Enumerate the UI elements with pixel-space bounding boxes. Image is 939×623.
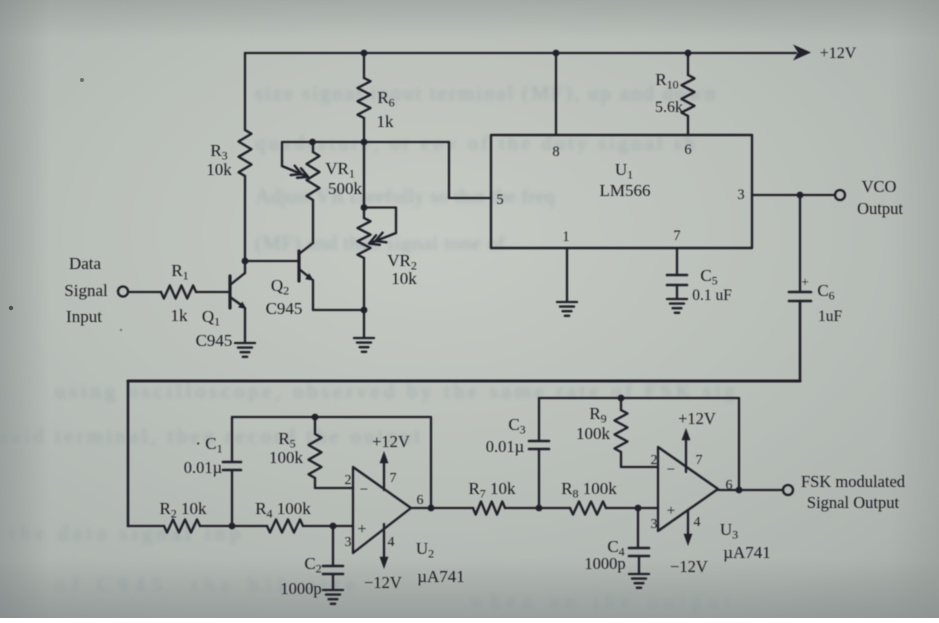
- label +12V supply: [820, 45, 857, 62]
- label C6: [817, 281, 834, 303]
- svg-text:10k: 10k: [391, 269, 417, 288]
- label C5: [700, 266, 717, 288]
- power arrow U3 +12V: [682, 428, 691, 472]
- node junction on rail at R10: [685, 50, 692, 57]
- svg-text:−: −: [360, 482, 368, 498]
- resistor R1: [161, 286, 196, 299]
- pin 6 label: [684, 142, 691, 158]
- wire R10 top: [687, 53, 689, 75]
- op-amp U3 triangle: [658, 447, 718, 531]
- label U3 minus: [667, 462, 675, 478]
- svg-text:7: 7: [673, 228, 680, 244]
- pin 4 label U2: [388, 535, 395, 550]
- node R5 top: [312, 414, 319, 421]
- svg-text:LM566: LM566: [600, 181, 651, 200]
- svg-text:R7​ 10k: R7​ 10k: [468, 479, 516, 501]
- label U3 -12V: [670, 557, 708, 576]
- pin 2 label U2: [345, 473, 352, 488]
- svg-text:Output: Output: [857, 199, 903, 218]
- capacitor C1: [223, 462, 241, 470]
- wire VR1 bottom to Q2 collector: [312, 200, 314, 243]
- resistor R4: [267, 520, 303, 533]
- svg-text:1: 1: [562, 229, 569, 245]
- pin 7 label U3: [696, 453, 703, 468]
- transistor Q1: [230, 273, 247, 309]
- wire C2 bottom: [332, 574, 334, 590]
- svg-text:7: 7: [696, 453, 703, 468]
- wire U3 output: [718, 489, 783, 491]
- wire pin 8 to rail: [555, 53, 557, 135]
- label U3 +12V: [678, 409, 716, 428]
- paper speck: [120, 329, 123, 332]
- ground C4: [629, 574, 649, 588]
- svg-text:7: 7: [390, 471, 397, 486]
- ground U1 pin1: [557, 302, 577, 316]
- wire pin 1 down: [566, 248, 568, 301]
- wiper arrow VR1: [282, 142, 312, 178]
- IC U1 LM566 body: [491, 135, 752, 248]
- node Q1 collector / R3 / Q2 base: [242, 258, 249, 265]
- label R1 value: [171, 306, 189, 325]
- node U2 output junction: [428, 505, 435, 512]
- svg-text:1uF: 1uF: [818, 308, 843, 325]
- op-amp U2 triangle: [353, 467, 411, 553]
- wire R4 to pin3: [303, 525, 353, 527]
- terminal FSK output: [783, 485, 793, 495]
- svg-text:−12V: −12V: [670, 557, 708, 576]
- label U3 part uA741: [723, 543, 771, 562]
- node junction on rail at R6: [361, 50, 368, 57]
- wire node to pin 5 of U1: [364, 142, 491, 198]
- node C1/R2/R4 junction: [229, 523, 236, 530]
- svg-text:−: −: [667, 462, 675, 478]
- label C4: [607, 537, 624, 559]
- node C4 tap: [635, 505, 642, 512]
- svg-text:+12V: +12V: [678, 409, 716, 428]
- svg-text:3: 3: [651, 517, 658, 532]
- label U1 part LM566: [600, 181, 651, 200]
- wiper arrow VR2: [364, 208, 396, 245]
- label U1: [615, 160, 633, 182]
- label R10: [655, 70, 678, 92]
- svg-text:2: 2: [651, 453, 658, 468]
- label VR2: [387, 251, 417, 273]
- pin 6 label U3: [726, 478, 733, 493]
- label U2 minus: [360, 482, 368, 498]
- svg-text:µA741: µA741: [723, 543, 771, 562]
- wire C1 top: [231, 417, 233, 462]
- wire U2 feedback: [232, 417, 431, 508]
- node C2 tap: [330, 523, 337, 530]
- ground C5: [667, 299, 687, 313]
- label Q2: [271, 276, 289, 298]
- label C6 value: [818, 308, 843, 325]
- svg-text:10k: 10k: [206, 160, 232, 179]
- label U2: [416, 539, 434, 561]
- capacitor C6: [789, 292, 811, 301]
- label R7 10k: [468, 479, 516, 501]
- svg-text:Signal Output: Signal Output: [807, 493, 900, 512]
- wire VR2 bottom: [363, 258, 365, 310]
- svg-text:+12V: +12V: [372, 432, 410, 451]
- label U3 plus: [667, 503, 675, 519]
- wire C3 top: [538, 398, 540, 441]
- svg-text:0.01µ: 0.01µ: [184, 458, 222, 477]
- wire C1 bottom: [231, 470, 233, 526]
- label C1: [195, 434, 222, 456]
- node VR1 top: [309, 139, 316, 146]
- svg-text:100k: 100k: [269, 448, 304, 467]
- wire VR1 top branch: [313, 142, 364, 152]
- wire R2 to node: [200, 525, 267, 527]
- pin 1 label: [562, 229, 569, 245]
- svg-text:R2​ 10k: R2​ 10k: [159, 499, 207, 521]
- resistor R8: [570, 502, 606, 515]
- ground C2: [323, 590, 343, 604]
- wire R5 top: [314, 417, 316, 434]
- svg-text:FSK modulated: FSK modulated: [801, 472, 906, 491]
- label R3: [210, 141, 227, 163]
- label R5: [278, 429, 295, 451]
- svg-text:5: 5: [496, 192, 503, 208]
- label R6: [377, 88, 394, 110]
- svg-text:5.6k: 5.6k: [655, 99, 683, 116]
- svg-text:Adjust VR carefully so tha: Adjust VR carefully so that the freq: [255, 184, 556, 208]
- pin 4 label U3: [694, 515, 701, 530]
- wire Q1 node to Q2 base: [245, 260, 298, 262]
- label VR1: [325, 159, 355, 181]
- wire input terminal: [118, 287, 161, 297]
- svg-text:Data: Data: [69, 254, 102, 273]
- svg-text:1000p: 1000p: [584, 554, 625, 573]
- label VR2 value: [391, 269, 417, 288]
- label U2 -12V: [364, 573, 402, 592]
- svg-text:3: 3: [737, 187, 744, 203]
- resistor R10: [682, 75, 695, 116]
- label R1: [171, 261, 188, 283]
- node C3 junction: [536, 505, 543, 512]
- wire C6 top: [799, 195, 801, 292]
- pin 8 label: [552, 144, 559, 160]
- node VR2 top: [361, 204, 368, 211]
- pin 7 label U2: [390, 471, 397, 486]
- wire U2 output line: [411, 507, 473, 509]
- bleed-through ghost text: [0, 81, 735, 613]
- wire C2 top: [332, 526, 334, 566]
- label C2: [304, 554, 321, 576]
- label C2 value: [280, 579, 321, 598]
- svg-text:VCO: VCO: [862, 177, 897, 196]
- capacitor C4: [629, 548, 649, 556]
- label Q1: [202, 307, 220, 329]
- paper speck: [80, 78, 84, 82]
- svg-text:R4​ 100k: R4​ 100k: [255, 499, 311, 521]
- svg-text:+: +: [801, 274, 808, 289]
- wire R6 top: [363, 53, 365, 78]
- svg-text:C945: C945: [196, 331, 233, 350]
- wire R1 to Q1 base: [196, 291, 229, 293]
- label U3: [720, 520, 738, 542]
- power arrow U2 +12V: [380, 451, 389, 490]
- svg-text:+: +: [667, 503, 675, 519]
- svg-text:8: 8: [552, 144, 559, 160]
- label R3 value: [206, 160, 232, 179]
- label VCO: [862, 177, 897, 196]
- node U3 output junction: [736, 487, 743, 494]
- wire R3 top: [244, 53, 246, 130]
- svg-text:4: 4: [388, 535, 395, 550]
- wire R3 bottom to Q1 collector node: [244, 176, 246, 261]
- paper speck: [9, 306, 13, 310]
- wire VR2 top stub: [363, 207, 365, 218]
- node C6 tap: [797, 192, 804, 199]
- label R5 value: [269, 448, 304, 467]
- wire C5 to ground: [676, 285, 678, 299]
- pin 7 label: [673, 228, 680, 244]
- label C6 plus: [801, 274, 808, 289]
- svg-text:−12V: −12V: [364, 573, 402, 592]
- svg-text:6: 6: [684, 142, 691, 158]
- svg-text:+12V: +12V: [820, 45, 857, 62]
- node R6/VR1/pin5 junction: [361, 139, 368, 146]
- svg-text:1000p: 1000p: [280, 579, 321, 598]
- label Q2 type C945: [266, 299, 303, 318]
- label FSK modulated: [801, 472, 906, 491]
- svg-text:3: 3: [345, 535, 352, 550]
- svg-text:6: 6: [417, 493, 424, 508]
- wire C3 bottom: [538, 449, 540, 508]
- svg-text:100k: 100k: [576, 424, 611, 443]
- capacitor C3: [529, 441, 549, 449]
- wire pin 7 down: [676, 248, 678, 275]
- wire ground stem: [363, 310, 365, 337]
- pin 5 label: [496, 192, 503, 208]
- label C1 value: [184, 458, 222, 477]
- svg-text:500k: 500k: [328, 179, 363, 198]
- label Q1 type C945: [196, 331, 233, 350]
- label R9 value: [576, 424, 611, 443]
- pin 2 label U3: [651, 453, 658, 468]
- wire C4 top: [637, 508, 639, 548]
- svg-text:R8​ 100k: R8​ 100k: [561, 479, 617, 501]
- wire +12V supply rail: [245, 45, 811, 61]
- wire R6 node down to VR2: [363, 142, 365, 207]
- label R8 100k: [561, 479, 617, 501]
- label Data Signal Input: [64, 254, 108, 326]
- wire U3 feedback: [539, 398, 739, 490]
- svg-text:C945: C945: [266, 299, 303, 318]
- node R9 top: [618, 395, 625, 402]
- capacitor C2: [323, 566, 343, 574]
- transistor Q2: [299, 243, 314, 281]
- label R2 10k: [159, 499, 207, 521]
- label U2 +12V: [372, 432, 410, 451]
- terminal VCO output: [835, 190, 845, 200]
- node Q2 emitter / VR2 ground junction: [361, 307, 368, 314]
- pin 3 label: [737, 187, 744, 203]
- resistor R7: [473, 502, 505, 515]
- svg-text:0.01µ: 0.01µ: [486, 437, 524, 456]
- wire R10 bottom to pin6: [687, 116, 689, 135]
- wire R5 to pin2: [315, 478, 353, 488]
- label R4 100k: [255, 499, 311, 521]
- potentiometer VR1: [307, 152, 320, 200]
- wire Q1 collector up: [244, 261, 246, 273]
- capacitor C5: [667, 275, 687, 285]
- node junction on rail at pin8: [553, 50, 560, 57]
- svg-text:Input: Input: [66, 307, 102, 326]
- label R6 value: [377, 112, 395, 131]
- wire R9 to pin2 U3: [621, 452, 658, 467]
- wire R7 to C3 node: [505, 507, 570, 509]
- label C4 value: [584, 554, 625, 573]
- ground Q2/VR2: [354, 338, 374, 352]
- potentiometer VR2: [358, 218, 371, 258]
- resistor R2: [164, 520, 200, 533]
- svg-text:2: 2: [345, 473, 352, 488]
- svg-text:1k: 1k: [377, 112, 395, 131]
- wire C4 bottom: [638, 556, 640, 573]
- svg-text:1k: 1k: [171, 306, 189, 325]
- resistor R3: [239, 130, 252, 176]
- wire pin 3 to VCO output: [752, 194, 835, 196]
- label VCO Output: [857, 199, 903, 218]
- pin 6 label U2: [417, 493, 424, 508]
- label R10 value: [655, 99, 683, 116]
- label C3: [508, 415, 525, 437]
- wire R8 to pin3 U3: [606, 507, 658, 509]
- label R9: [589, 404, 606, 426]
- wire Q1 emitter down: [244, 308, 246, 342]
- svg-text:Signal: Signal: [64, 281, 108, 300]
- wire C6 to lower stage: [128, 301, 800, 526]
- pin 3 label U2: [345, 535, 352, 550]
- label Signal Output: [807, 493, 900, 512]
- wire input line R2: [128, 525, 164, 527]
- svg-text:0.1 uF: 0.1 uF: [692, 287, 732, 304]
- svg-text:+: +: [357, 521, 366, 538]
- ground Q1 emitter: [235, 343, 255, 357]
- power arrow U3 -12V: [684, 510, 693, 546]
- power arrow U2 -12V: [380, 524, 389, 569]
- wire Q2 emitter to ground node: [313, 280, 364, 310]
- pin 3 label U3: [651, 517, 658, 532]
- wire R9 top: [620, 398, 622, 410]
- svg-text:size signal input terminal: size signal input terminal (MF), up and …: [255, 81, 716, 105]
- label VR1 value: [328, 179, 363, 198]
- label U2 part uA741: [417, 567, 465, 586]
- label C3 value: [486, 437, 524, 456]
- resistor R5: [309, 434, 322, 478]
- svg-text:4: 4: [694, 515, 701, 530]
- resistor R9: [615, 410, 628, 452]
- svg-text:µA741: µA741: [417, 567, 465, 586]
- resistor R6: [358, 78, 371, 118]
- label C5 value: [692, 287, 732, 304]
- label U2 plus: [357, 521, 366, 538]
- wire R6 bottom: [363, 118, 365, 142]
